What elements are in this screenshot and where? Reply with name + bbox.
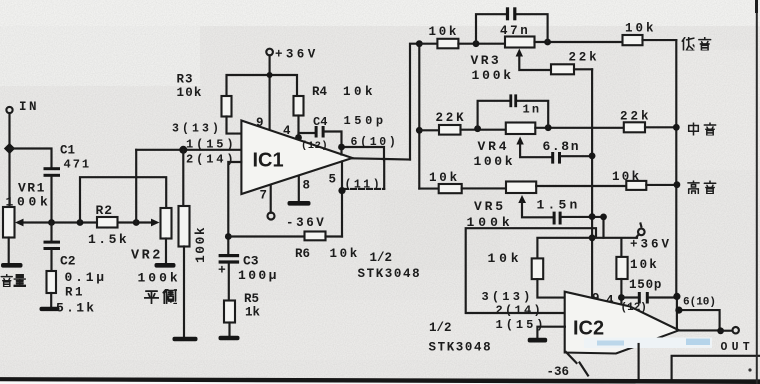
svg-text:1.5n: 1.5n [537,198,581,213]
svg-text:100k: 100k [472,68,514,83]
svg-text:C4: C4 [313,115,327,129]
svg-text:VR2: VR2 [131,249,163,264]
svg-text:100k: 100k [474,154,516,169]
svg-text:C2: C2 [60,254,76,269]
svg-text:471: 471 [64,158,92,172]
svg-text:IN: IN [19,100,39,114]
svg-text:100k: 100k [193,226,208,263]
svg-text:10k: 10k [625,22,657,36]
svg-text:10k: 10k [429,171,460,185]
svg-text:R2: R2 [96,203,114,218]
svg-text:3(13): 3(13) [482,290,534,304]
svg-text:1.5k: 1.5k [88,232,129,247]
svg-text:22k: 22k [569,51,600,65]
svg-text:6.8n: 6.8n [543,139,581,154]
svg-text:150p: 150p [629,278,662,292]
svg-text:100μ: 100μ [238,268,279,283]
svg-text:R3: R3 [177,73,194,87]
svg-text:1/2: 1/2 [370,251,393,265]
svg-text:+36V: +36V [630,238,672,252]
svg-text:100k: 100k [6,195,52,210]
svg-text:22k: 22k [620,110,652,124]
svg-text:STK3048: STK3048 [358,267,422,281]
svg-text:VR1: VR1 [18,181,46,196]
svg-text:10k: 10k [488,251,523,266]
svg-text:(12): (12) [301,140,328,152]
svg-text:47n: 47n [500,24,530,38]
svg-text:C1: C1 [60,144,75,158]
svg-text:VR5: VR5 [474,199,506,214]
svg-text:6(10): 6(10) [351,136,399,149]
svg-text:1n: 1n [523,103,542,117]
svg-text:VR4: VR4 [478,139,510,154]
svg-text:10k: 10k [343,85,376,99]
svg-text:7: 7 [260,189,268,203]
svg-text:IC2: IC2 [573,318,604,340]
svg-text:1(15): 1(15) [496,318,547,332]
svg-text:5.1k: 5.1k [56,301,96,316]
svg-text:0.1μ: 0.1μ [65,270,107,285]
svg-text:1/2: 1/2 [429,321,452,335]
svg-text:100k: 100k [138,271,181,286]
svg-text:STK3048: STK3048 [429,341,493,355]
svg-text:+36V: +36V [275,48,319,62]
svg-text:10k: 10k [330,247,360,261]
svg-text:10k: 10k [630,258,659,272]
svg-text:10k: 10k [612,170,641,184]
svg-text:(12): (12) [621,302,647,314]
svg-text:2(14): 2(14) [496,304,544,318]
svg-text:10k: 10k [429,25,460,39]
svg-text:150p: 150p [344,114,387,128]
svg-text:6(10): 6(10) [683,297,716,309]
svg-text:IC1: IC1 [253,150,284,172]
svg-text:R1: R1 [65,286,85,300]
svg-text:C3: C3 [243,254,259,269]
svg-text:+: + [218,263,226,278]
svg-text:8: 8 [303,179,311,193]
svg-text:10k: 10k [177,86,203,100]
svg-text:R5: R5 [244,292,259,306]
svg-text:22K: 22K [436,111,467,125]
svg-text:-36: -36 [547,365,570,379]
svg-text:R4: R4 [312,85,328,99]
svg-text:(11): (11) [345,179,383,192]
svg-text:3(13): 3(13) [172,123,222,136]
svg-text:OUT: OUT [721,341,754,354]
svg-text:5: 5 [329,173,337,187]
svg-text:VR3: VR3 [471,53,502,68]
svg-text:1k: 1k [245,306,261,320]
svg-text:1(15): 1(15) [186,138,237,152]
svg-text:-36V: -36V [286,216,326,230]
svg-text:R6: R6 [295,247,310,261]
